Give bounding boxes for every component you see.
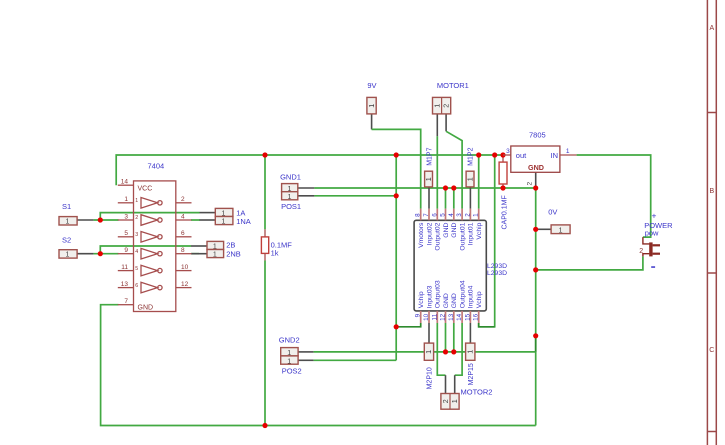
capacitor C1 CAP0.1MF <box>499 162 509 229</box>
junction cap bottom <box>500 185 505 190</box>
pin 13 <box>118 287 134 289</box>
pin 8 Vmotors <box>420 209 422 221</box>
svg-text:2NB: 2NB <box>226 250 241 259</box>
svg-text:1: 1 <box>559 227 563 234</box>
svg-text:GND2: GND2 <box>279 336 300 345</box>
gate 2 <box>141 215 158 226</box>
svg-text:1: 1 <box>466 350 475 354</box>
svg-text:5: 5 <box>440 213 447 217</box>
connector MOTOR1 <box>433 81 469 114</box>
svg-text:B: B <box>709 188 714 195</box>
pin 5 GND <box>445 209 447 221</box>
svg-text:14: 14 <box>121 179 129 186</box>
svg-text:Output02: Output02 <box>435 222 442 250</box>
wire pin14 to MOTOR2 <box>455 323 462 375</box>
pin 3 <box>118 219 134 221</box>
pin 13 GND <box>453 311 455 323</box>
pin 5 <box>118 236 134 238</box>
svg-text:GND: GND <box>443 293 450 308</box>
svg-text:3: 3 <box>506 148 510 155</box>
svg-text:1: 1 <box>66 252 70 259</box>
connector 1A <box>215 208 245 217</box>
svg-text:Input02: Input02 <box>426 222 433 245</box>
junction pin4 gnd <box>451 185 456 190</box>
wire POS1 net <box>298 195 315 197</box>
wire 2B lead <box>191 245 207 247</box>
svg-text:1NA: 1NA <box>236 217 251 226</box>
wire cap top stub <box>502 155 504 162</box>
svg-text:1: 1 <box>367 104 376 108</box>
pin 7 Input02 <box>428 209 430 221</box>
svg-text:MOTOR2: MOTOR2 <box>461 388 493 397</box>
svg-text:Output01: Output01 <box>459 222 466 250</box>
pin 3 Output01 <box>461 209 463 221</box>
svg-text:M1P2: M1P2 <box>468 147 475 165</box>
pin 9 <box>118 253 134 255</box>
pin 2 <box>176 202 192 204</box>
svg-text:14: 14 <box>456 313 463 321</box>
wire M1P7 lead <box>428 187 430 209</box>
connector S1 <box>59 202 77 226</box>
wire pin11 to MOTOR2 <box>437 323 445 375</box>
svg-text:M1P7: M1P7 <box>426 147 433 165</box>
gate 4 <box>141 248 158 259</box>
wire MOTOR1 pin1 to pin6 <box>436 114 438 136</box>
svg-text:3: 3 <box>135 232 138 238</box>
connector POS2 <box>281 356 302 375</box>
IC U1 7404 <box>118 162 192 312</box>
svg-text:2: 2 <box>442 104 451 108</box>
wire pin12 riser <box>445 323 447 352</box>
svg-text:GND: GND <box>451 293 458 308</box>
pin 4 <box>176 219 192 221</box>
svg-text:pow: pow <box>645 228 659 237</box>
connector M1P2 <box>466 147 475 186</box>
svg-text:7: 7 <box>423 213 430 217</box>
wire pin13 riser <box>453 323 455 352</box>
wire pin15 to M2P15 <box>469 323 471 343</box>
svg-text:Input03: Input03 <box>426 285 433 308</box>
svg-text:1: 1 <box>433 104 442 108</box>
svg-text:Input04: Input04 <box>468 285 475 308</box>
svg-text:9: 9 <box>415 313 422 317</box>
wire S1 to pin3 <box>77 219 94 221</box>
regulator U3 7805 <box>503 131 577 186</box>
svg-text:6: 6 <box>431 213 438 217</box>
gate 5 <box>141 265 158 276</box>
junction 0V <box>533 227 538 232</box>
svg-text:11: 11 <box>431 313 438 320</box>
svg-text:1: 1 <box>222 219 226 226</box>
frame column border <box>707 0 716 445</box>
svg-text:0V: 0V <box>548 208 557 217</box>
pin 1 <box>118 202 134 204</box>
svg-text:6: 6 <box>181 230 185 237</box>
connector M1P7 <box>424 147 433 186</box>
junction S1 <box>98 217 103 222</box>
svg-text:8: 8 <box>415 213 422 217</box>
wire pin5 gnd riser <box>445 188 447 209</box>
svg-text:2: 2 <box>639 248 643 255</box>
svg-text:1: 1 <box>135 198 138 204</box>
svg-text:C: C <box>709 347 714 354</box>
svg-text:15: 15 <box>464 313 471 321</box>
svg-text:out: out <box>516 151 527 160</box>
wire cap bottom stub <box>502 184 504 188</box>
svg-text:Vmotors: Vmotors <box>418 222 425 248</box>
junction POS1 <box>394 193 399 198</box>
svg-text:7404: 7404 <box>148 162 165 171</box>
svg-text:12: 12 <box>181 281 189 288</box>
svg-text:+: + <box>652 211 657 221</box>
junction vchip right <box>492 152 497 157</box>
pin 10 Input03 <box>428 311 430 323</box>
pin 1 Vchip <box>478 209 480 221</box>
svg-text:1: 1 <box>424 350 433 354</box>
svg-text:A: A <box>709 25 714 32</box>
wire pin1 vchip riser <box>478 155 480 209</box>
svg-text:Vchip: Vchip <box>476 291 483 308</box>
wire M1P2 lead <box>469 187 471 209</box>
connector POS1 <box>281 192 301 212</box>
pin 9 Vchip <box>420 311 422 323</box>
svg-text:IN: IN <box>551 151 559 160</box>
svg-text:3: 3 <box>456 213 463 217</box>
svg-text:5: 5 <box>135 266 138 272</box>
svg-text:1: 1 <box>66 219 70 226</box>
svg-text:Output03: Output03 <box>435 280 442 308</box>
svg-text:GND: GND <box>443 223 450 238</box>
junction POS riser top <box>394 152 399 157</box>
battery POWER pow <box>639 211 673 268</box>
svg-text:1: 1 <box>473 213 480 217</box>
svg-text:5: 5 <box>124 230 128 237</box>
wire MOTOR1 pin2 to pin3 <box>445 114 447 131</box>
pin 16 Vchip <box>478 311 480 323</box>
pin 11 <box>118 270 134 272</box>
wire gnd segment dark <box>535 336 537 352</box>
wire pin9 vchip link <box>396 323 421 327</box>
svg-text:GND: GND <box>451 223 458 238</box>
svg-text:POS1: POS1 <box>281 202 301 211</box>
svg-text:S1: S1 <box>62 202 71 211</box>
svg-text:12: 12 <box>440 313 447 321</box>
svg-text:11: 11 <box>121 264 128 271</box>
svg-text:CAP0.1MF: CAP0.1MF <box>502 195 509 229</box>
svg-text:1: 1 <box>466 177 475 181</box>
connector GND1 <box>280 173 301 193</box>
svg-text:2B: 2B <box>226 240 235 249</box>
pin 14 Output04 <box>461 311 463 323</box>
svg-text:M2P15: M2P15 <box>468 363 475 385</box>
svg-text:16: 16 <box>473 313 480 321</box>
wire pin8 to 2NB <box>191 253 199 255</box>
svg-text:VCC: VCC <box>138 185 153 192</box>
svg-text:1: 1 <box>213 252 217 259</box>
svg-text:Vchip: Vchip <box>476 222 483 239</box>
connector MOTOR2 <box>441 388 493 410</box>
svg-text:2: 2 <box>441 399 450 403</box>
wire 0V lead <box>536 228 551 230</box>
wire GND1 net <box>298 187 315 189</box>
wire S2 to pin9 <box>77 253 94 255</box>
pin 12 <box>176 287 192 289</box>
wire pin16 link <box>479 323 495 327</box>
pin 11 Output03 <box>436 311 438 323</box>
connector 9V <box>367 81 377 114</box>
pin 15 Input04 <box>469 311 471 323</box>
svg-text:1: 1 <box>288 194 292 201</box>
connector M2P10 <box>424 343 433 389</box>
connector 1NA <box>215 217 250 227</box>
svg-text:7: 7 <box>124 298 128 305</box>
connector 2NB <box>207 250 241 259</box>
pin 10 <box>176 270 192 272</box>
pin 14 <box>118 184 134 186</box>
svg-text:2: 2 <box>181 196 185 203</box>
gate 1 <box>141 198 158 209</box>
svg-text:GND: GND <box>138 305 154 312</box>
svg-text:1: 1 <box>566 148 570 155</box>
svg-text:4: 4 <box>181 213 185 220</box>
wire main gnd vertical <box>535 188 537 426</box>
svg-text:9: 9 <box>124 247 128 254</box>
pin 8 <box>176 253 192 255</box>
svg-text:4: 4 <box>135 249 138 255</box>
svg-text:Output04: Output04 <box>459 280 466 308</box>
pin 4 GND <box>453 209 455 221</box>
junction POS2 vchip <box>394 324 399 329</box>
wire resistor bottom riser <box>264 261 266 426</box>
wire 5V top rail <box>116 155 503 185</box>
svg-text:1: 1 <box>424 177 433 181</box>
svg-text:1: 1 <box>450 399 459 403</box>
pin 7 <box>118 304 134 306</box>
junction gnd mid <box>533 333 538 338</box>
junction pin12 <box>443 349 448 354</box>
svg-text:2: 2 <box>464 213 471 217</box>
svg-text:1: 1 <box>124 196 128 203</box>
svg-text:2: 2 <box>527 182 534 186</box>
wire pin4 to 1NA <box>191 219 200 221</box>
junction resistor top <box>262 152 267 157</box>
resistor R1 0.1MF 1k <box>261 229 292 260</box>
svg-text:Input01: Input01 <box>468 222 475 245</box>
gate 3 <box>141 232 158 243</box>
svg-text:MOTOR1: MOTOR1 <box>437 81 469 90</box>
svg-text:M2P10: M2P10 <box>427 367 434 389</box>
wire 9V to pin8 <box>371 114 373 129</box>
svg-text:8: 8 <box>181 247 185 254</box>
junction battery minus <box>533 267 538 272</box>
svg-text:POS2: POS2 <box>282 366 302 375</box>
svg-text:L293D: L293D <box>487 270 507 277</box>
svg-text:9V: 9V <box>367 81 376 90</box>
junction S2 <box>98 251 103 256</box>
junction pin13 <box>451 349 456 354</box>
wire 7805 gnd pin2 <box>535 172 537 188</box>
svg-text:Vchip: Vchip <box>418 291 425 308</box>
wire GND2 net <box>298 351 314 353</box>
svg-text:6: 6 <box>135 283 138 289</box>
svg-text:GND1: GND1 <box>280 173 301 182</box>
junction cap top <box>500 152 505 157</box>
wire ground left run <box>101 305 536 426</box>
svg-text:7805: 7805 <box>529 131 546 140</box>
pin 6 Output02 <box>436 209 438 221</box>
connector 0V <box>548 208 570 235</box>
junction pin5 gnd <box>443 185 448 190</box>
svg-text:10: 10 <box>423 313 430 321</box>
svg-text:2: 2 <box>135 215 138 221</box>
svg-text:S2: S2 <box>62 236 71 245</box>
wire 5V riser POS <box>395 155 397 327</box>
connector GND2 <box>279 336 300 358</box>
connector 2B <box>207 240 235 250</box>
pin 6 <box>176 236 192 238</box>
svg-text:13: 13 <box>121 281 129 288</box>
svg-text:1: 1 <box>287 358 291 365</box>
svg-text:3: 3 <box>124 213 128 220</box>
wire POS2 net <box>298 359 314 361</box>
pin 12 GND <box>445 311 447 323</box>
svg-text:GND: GND <box>528 163 544 172</box>
wire 7805 out to battery <box>577 155 651 237</box>
svg-text:13: 13 <box>448 313 455 321</box>
gate 6 <box>141 282 158 293</box>
wire 1A lead <box>200 212 216 214</box>
connector S2 <box>59 236 77 259</box>
IC U2 L293D <box>414 209 507 323</box>
pin 2 Input01 <box>469 209 471 221</box>
wire vchip right riser <box>479 155 495 327</box>
junction 7805 gnd <box>533 185 538 190</box>
junction resistor bottom <box>262 423 267 428</box>
wire battery minus to gnd <box>536 256 643 270</box>
svg-text:4: 4 <box>448 213 455 217</box>
junction pin1 vchip <box>476 152 481 157</box>
wire pin10 to M2P10 <box>428 323 430 343</box>
svg-text:10: 10 <box>181 264 189 271</box>
connector M2P15 <box>466 343 475 385</box>
svg-text:1k: 1k <box>271 249 279 258</box>
wire S1 riser to 1A <box>100 213 199 220</box>
wire S2 riser to 2B <box>100 246 191 254</box>
wire resistor top riser <box>264 155 266 229</box>
wire pin4 gnd riser <box>453 188 455 209</box>
